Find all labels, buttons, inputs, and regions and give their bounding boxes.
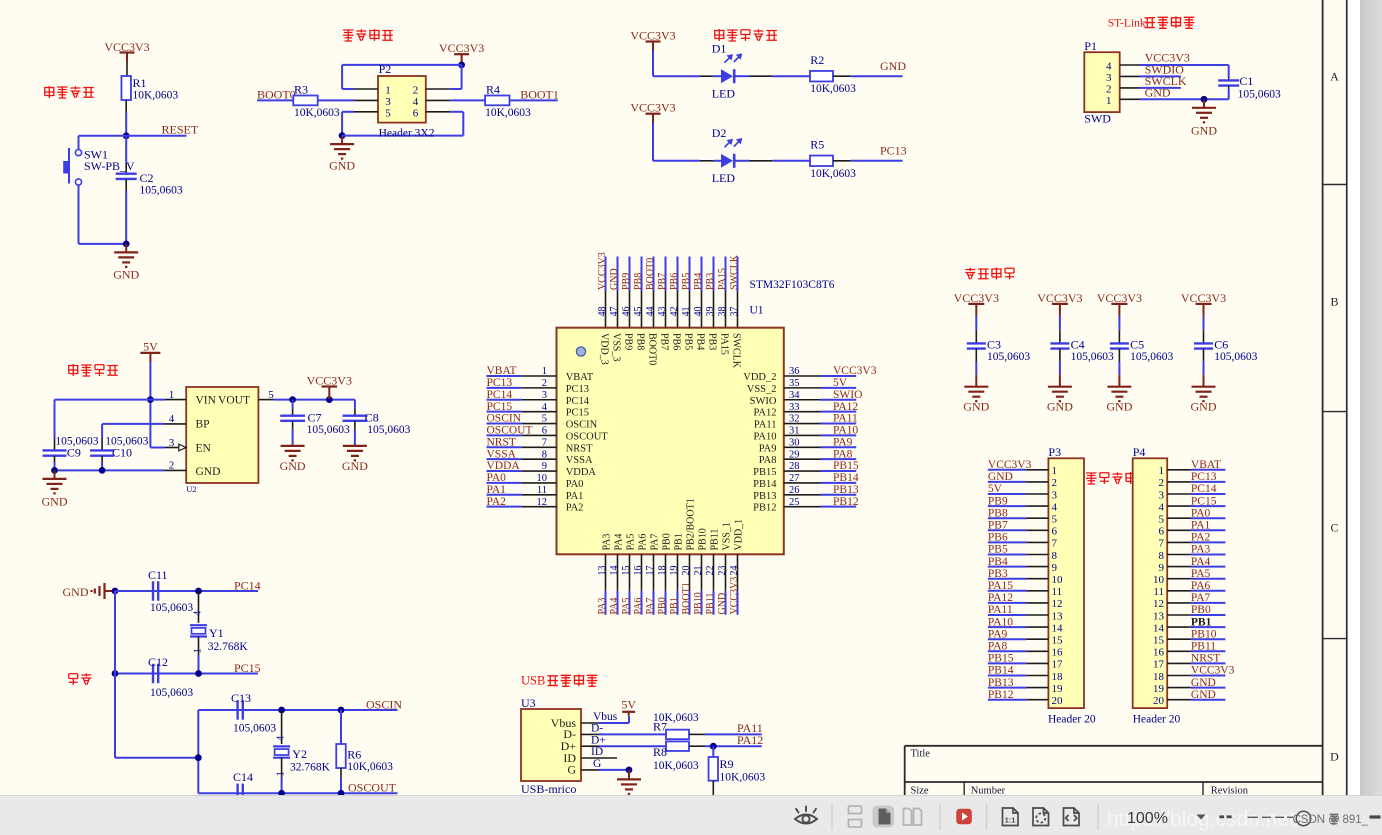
regulator U2: [186, 387, 258, 494]
svg-text:1: 1: [1106, 95, 1112, 107]
svg-text:PC15: PC15: [1191, 495, 1217, 507]
capacitor C13: [231, 691, 276, 735]
pin 14 P3 net PA10: [988, 616, 1063, 634]
svg-text:1: 1: [1052, 465, 1058, 477]
pin 9 P3 net PB4: [988, 556, 1058, 574]
svg-text:GND: GND: [1047, 400, 1073, 414]
svg-text:15: 15: [621, 566, 632, 576]
pin 3 P4 net PC14: [1159, 483, 1226, 501]
svg-text:VBAT: VBAT: [566, 372, 594, 383]
svg-text:VDD_2: VDD_2: [743, 372, 776, 383]
svg-text:OSCIN: OSCIN: [366, 698, 402, 712]
LED D2: [712, 126, 741, 185]
crystal Y2: [273, 710, 331, 793]
svg-text:44: 44: [645, 307, 656, 317]
pin 4 stub BP: [165, 423, 186, 425]
net label VCC3V3 wire to C1: [1140, 51, 1229, 66]
section title 电源指示灯: [714, 29, 777, 41]
pin 45 U1 top net PB8: [633, 257, 646, 351]
svg-text:3: 3: [542, 390, 547, 401]
power port 5V: [621, 698, 636, 716]
svg-text:21: 21: [693, 566, 704, 576]
svg-text:BOOT1: BOOT1: [681, 582, 692, 614]
svg-text:SWIO: SWIO: [833, 389, 862, 401]
pin 31 U1 right net PA10: [754, 425, 859, 443]
ground: [1191, 99, 1217, 137]
svg-text:17: 17: [1052, 659, 1064, 671]
svg-text:39: 39: [705, 307, 716, 317]
pin 6 U1 left net OSCOUT: [487, 425, 609, 443]
pin 18 P3 net PB14: [988, 665, 1063, 683]
svg-text:R9: R9: [720, 757, 734, 771]
svg-text:GND: GND: [609, 268, 620, 290]
svg-text:OSCIN: OSCIN: [487, 413, 522, 425]
ground: [963, 375, 989, 414]
svg-text:19: 19: [669, 566, 680, 576]
svg-text:PA3: PA3: [597, 598, 608, 615]
svg-text:29: 29: [789, 449, 800, 460]
svg-text:PA12: PA12: [737, 733, 763, 747]
svg-text:PB14: PB14: [988, 665, 1014, 677]
svg-text:SWIO: SWIO: [750, 396, 777, 407]
svg-text:Header 3X2: Header 3X2: [379, 128, 435, 140]
svg-text:PB3: PB3: [706, 333, 717, 350]
node Y1 bottom junction: [195, 670, 202, 677]
power port VCC3V3: [1181, 291, 1226, 316]
capacitor C11: [148, 568, 193, 614]
svg-text:GND: GND: [988, 471, 1013, 483]
pin 4 stub: [1120, 64, 1140, 66]
net label SWCLK: [1140, 74, 1187, 88]
svg-text:PA11: PA11: [833, 413, 858, 425]
pin 22 U1 bottom net PB11: [705, 529, 721, 615]
svg-text:C10: C10: [112, 446, 132, 460]
section title 电源模块: [68, 364, 118, 376]
svg-text:VCC3V3: VCC3V3: [1037, 291, 1082, 305]
svg-text:PC15: PC15: [566, 408, 589, 419]
svg-text:PC14: PC14: [566, 396, 590, 407]
svg-text:D1: D1: [712, 42, 727, 56]
section title 使能电路: [343, 29, 393, 41]
capacitor C3: [967, 316, 1031, 375]
section title 复位电路: [44, 86, 94, 98]
svg-text:24: 24: [729, 566, 740, 576]
svg-text:25: 25: [789, 497, 800, 508]
svg-text:30: 30: [789, 437, 800, 448]
svg-text:18: 18: [1153, 671, 1165, 683]
svg-text:1:1: 1:1: [1005, 816, 1016, 825]
svg-text:C12: C12: [148, 655, 168, 669]
svg-text:16: 16: [633, 566, 644, 576]
wire pin6 to GND: [342, 112, 463, 136]
svg-text:GND: GND: [717, 593, 728, 615]
svg-text:4: 4: [275, 735, 286, 741]
svg-text:40: 40: [693, 307, 704, 317]
pin 3 stub: [1120, 75, 1140, 77]
node R9 junction: [710, 743, 717, 750]
watermark CSDN text: [1293, 814, 1369, 826]
node VCC3V3 junction: [326, 396, 333, 403]
power port VCC3V3: [307, 374, 352, 400]
net label PA11: [689, 721, 763, 735]
svg-text:37: 37: [729, 307, 740, 317]
pin 25 U1 right net PB12: [753, 496, 859, 514]
pin 47 U1 top net GND: [609, 257, 622, 362]
wire 5V vertical to EN: [150, 362, 165, 448]
svg-text:PB4: PB4: [693, 273, 704, 290]
pin D+ wire: [581, 734, 666, 746]
svg-text:RESET: RESET: [162, 123, 199, 137]
svg-text:105,0603: 105,0603: [1238, 88, 1281, 100]
svg-text:PA15: PA15: [718, 333, 729, 355]
capacitor C2: [116, 136, 183, 244]
svg-text:3: 3: [1106, 72, 1112, 84]
svg-text:NRST: NRST: [487, 436, 516, 448]
pin 10 P3 net PB3: [988, 568, 1063, 586]
svg-text:C3: C3: [987, 338, 1001, 352]
svg-text:VCC3V3: VCC3V3: [1191, 665, 1235, 677]
svg-text:PA9: PA9: [988, 628, 1008, 640]
pin 13 P3 net PA11: [988, 604, 1063, 622]
pin 2 stub GND: [165, 469, 186, 471]
wire OSCIN line: [198, 709, 397, 711]
svg-text:4: 4: [1159, 501, 1165, 513]
svg-text:11: 11: [1052, 586, 1063, 598]
toolbar actual-size icon: [1003, 808, 1019, 826]
svg-text:R1: R1: [133, 76, 147, 90]
svg-text:PA7: PA7: [650, 534, 661, 551]
svg-text:PA9: PA9: [759, 443, 777, 454]
pin 15 U1 bottom net PA5: [621, 534, 637, 615]
svg-text:SWCLK: SWCLK: [729, 254, 740, 290]
svg-text:4: 4: [1106, 61, 1112, 73]
svg-text:GND: GND: [42, 495, 68, 509]
svg-text:27: 27: [789, 473, 800, 484]
svg-text:PB4: PB4: [988, 556, 1008, 568]
svg-text:5V: 5V: [988, 483, 1003, 495]
pin 19 U1 bottom net PB1: [669, 533, 685, 615]
svg-text:SW-PB_V: SW-PB_V: [84, 159, 135, 173]
pin 4 stub: [426, 99, 451, 101]
svg-text:PA2: PA2: [487, 496, 507, 508]
svg-text:2: 2: [542, 378, 547, 389]
svg-text:OSCOUT: OSCOUT: [487, 425, 533, 437]
resistor R4: [450, 83, 531, 119]
svg-text:OSCIN: OSCIN: [566, 420, 598, 431]
svg-text:PB1: PB1: [669, 597, 680, 614]
svg-text:C13: C13: [231, 691, 251, 705]
toolbar dropdown arrow: [1197, 815, 1206, 820]
wire SW1 to GND node: [79, 243, 127, 245]
pin 20 P4 net GND: [1153, 689, 1225, 707]
svg-text:28: 28: [789, 461, 800, 472]
pin 36 U1 right net VCC3V3: [743, 365, 876, 383]
title block: [905, 746, 1323, 797]
svg-text:GND: GND: [1106, 400, 1132, 414]
section title 滤波电容: [965, 268, 1014, 280]
pin 18 U1 bottom net PB0: [657, 533, 673, 615]
svg-text:34: 34: [789, 390, 800, 401]
svg-text:PA9: PA9: [833, 436, 853, 448]
pin 5 U1 left net OSCIN: [487, 413, 598, 431]
svg-text:C6: C6: [1214, 338, 1228, 352]
svg-text:6: 6: [1159, 526, 1165, 538]
svg-text:PB15: PB15: [833, 460, 859, 472]
svg-text:C: C: [1330, 521, 1338, 535]
svg-text:PB5: PB5: [682, 333, 693, 350]
pin 2 P3 net GND: [988, 471, 1057, 489]
pin 3 P3 net 5V: [988, 483, 1058, 501]
svg-text:C4: C4: [1071, 338, 1085, 352]
resistor R5: [810, 138, 856, 180]
pin 1 P4 net VBAT: [1159, 459, 1226, 477]
pin 16 P4 net PB11: [1153, 641, 1225, 659]
svg-text:C2: C2: [140, 171, 154, 185]
svg-text:GND: GND: [963, 400, 989, 414]
svg-text:P3: P3: [1048, 445, 1061, 459]
svg-text:10K,0603: 10K,0603: [485, 107, 531, 119]
svg-text:20: 20: [681, 566, 692, 576]
pin 5 stub VOUT: [258, 399, 274, 401]
pin 12 P3 net PA12: [988, 592, 1063, 610]
svg-text:7: 7: [1052, 538, 1058, 550]
svg-text:PB15: PB15: [988, 653, 1014, 665]
svg-text:USB: USB: [521, 674, 545, 688]
power port VCC3V3: [104, 40, 149, 62]
svg-text:PA4: PA4: [614, 534, 625, 551]
pin 11 P3 net PA15: [988, 580, 1062, 598]
svg-text:PB0: PB0: [662, 533, 673, 550]
power port VCC3V3: [630, 101, 675, 124]
pin 43 U1 top net PB7: [657, 257, 670, 351]
svg-text:PB7: PB7: [657, 273, 668, 290]
svg-text:2: 2: [1159, 477, 1165, 489]
svg-text:BP: BP: [196, 419, 210, 431]
node R6 bottom junction: [338, 790, 345, 797]
pin 4 P4 net PC15: [1159, 495, 1226, 513]
capacitor C6: [1194, 316, 1258, 375]
svg-text:OSCOUT: OSCOUT: [348, 781, 397, 795]
resistor R7: [653, 712, 699, 739]
svg-text:1: 1: [542, 366, 547, 377]
svg-text:46: 46: [621, 307, 632, 317]
svg-text:Title: Title: [911, 748, 931, 759]
section title 外接引脚: [1086, 472, 1136, 484]
svg-text:10: 10: [1153, 574, 1165, 586]
svg-text:5: 5: [268, 389, 274, 401]
svg-text:PB4: PB4: [694, 333, 705, 350]
svg-text:GND: GND: [113, 268, 139, 282]
node GND junction crystal: [112, 588, 119, 595]
pin 24 U1 bottom net VCC3V3: [729, 519, 745, 615]
svg-text:PB6: PB6: [669, 273, 680, 290]
white margin strip: [1348, 0, 1360, 795]
svg-text:VCC3V3: VCC3V3: [439, 41, 484, 55]
toolbar background: [0, 795, 1382, 835]
net label PC13: [833, 144, 907, 161]
svg-text:Number: Number: [971, 786, 1006, 797]
pin 3 stub: [354, 99, 378, 101]
net label SWDIO: [1140, 63, 1185, 77]
pin 1 stub VIN: [165, 399, 186, 401]
node PC15 left junction: [112, 670, 119, 677]
svg-text:SWCLK: SWCLK: [730, 333, 741, 369]
svg-text:B: B: [1330, 295, 1338, 309]
svg-text:105,0603: 105,0603: [307, 424, 350, 436]
toolbar eye icon: [795, 807, 817, 824]
svg-text:4: 4: [413, 96, 419, 108]
svg-text:PC13: PC13: [487, 377, 513, 389]
svg-text:PA1: PA1: [566, 491, 584, 502]
svg-text:PB11: PB11: [710, 529, 721, 551]
svg-text:VDDA: VDDA: [487, 460, 521, 472]
pin Vbus wire to 5V: [581, 711, 629, 723]
pin 5 stub: [354, 111, 378, 113]
capacitor C9: [43, 436, 99, 471]
wire GND rail: [55, 469, 166, 471]
node RESET junction: [123, 132, 130, 139]
svg-text:GND: GND: [1191, 689, 1216, 701]
wire VCC to D2: [653, 123, 721, 161]
wire VCC3V3 to R1: [126, 62, 128, 76]
svg-text:R4: R4: [486, 83, 500, 97]
svg-text:10K,0603: 10K,0603: [133, 90, 179, 102]
wire PC15 line: [115, 673, 258, 675]
wire left vertical: [114, 591, 116, 758]
section title 晶振: [69, 673, 92, 685]
pin 9 P4 net PA4: [1159, 556, 1226, 574]
pin 34 U1 right net SWIO: [750, 389, 863, 407]
node C7 junction: [289, 396, 296, 403]
pin 16 P3 net PA8: [988, 641, 1063, 659]
svg-text:VSSA: VSSA: [566, 455, 593, 466]
svg-text:1: 1: [169, 389, 175, 401]
svg-text:PB15: PB15: [753, 467, 776, 478]
pin 6 P3 net PB7: [988, 520, 1058, 538]
ground: [42, 470, 68, 508]
ground: [329, 136, 355, 173]
pin 15 P4 net PB10: [1153, 628, 1225, 646]
svg-text:D: D: [1330, 750, 1339, 764]
resistor R2: [810, 53, 856, 95]
pin 13 U1 bottom net PA3: [597, 534, 613, 615]
svg-text:PB5: PB5: [681, 273, 692, 290]
toolbar fit-width icon: [1064, 808, 1080, 826]
svg-text:32.768K: 32.768K: [290, 762, 331, 774]
svg-text:GND: GND: [880, 59, 906, 73]
pin 48 U1 top net VCC3V3: [597, 252, 610, 364]
svg-text:PB12: PB12: [753, 503, 776, 514]
svg-text:VSS_1: VSS_1: [722, 522, 733, 550]
svg-text:U1: U1: [750, 305, 764, 317]
svg-text:PB14: PB14: [833, 472, 859, 484]
svg-text:31: 31: [789, 426, 800, 437]
svg-text:NRST: NRST: [566, 443, 593, 454]
capacitor C12: [148, 655, 193, 699]
toolbar two-page icon: [904, 809, 922, 826]
svg-text:20: 20: [1153, 695, 1165, 707]
svg-text:45: 45: [633, 307, 644, 317]
svg-text:BOOT0: BOOT0: [645, 258, 656, 290]
toolbar zoom minus dashes: [1219, 815, 1231, 818]
svg-text:VCC3V3: VCC3V3: [1181, 291, 1226, 305]
pin 4 P3 net PB9: [988, 495, 1058, 513]
pin 21 U1 bottom net PB10: [693, 528, 709, 615]
net label BOOT0: [257, 88, 296, 102]
net label GND: [833, 59, 906, 76]
pin 9 U1 left net VDDA: [487, 460, 597, 478]
svg-text:32.768K: 32.768K: [208, 641, 249, 653]
svg-text:105,0603: 105,0603: [367, 424, 410, 436]
svg-text:43: 43: [657, 307, 668, 317]
wire D1 to R2: [736, 75, 811, 77]
pin 20 P3 net PB12: [988, 689, 1063, 707]
wire R3 to pin3: [318, 99, 354, 101]
svg-text:PB10: PB10: [1191, 628, 1217, 640]
svg-text:GND: GND: [329, 159, 355, 173]
svg-text:Y2: Y2: [292, 747, 307, 761]
svg-text:P1: P1: [1084, 39, 1097, 53]
node C10 GND junction: [99, 467, 106, 474]
svg-text:10K,0603: 10K,0603: [653, 712, 699, 724]
svg-text:5V: 5V: [621, 698, 636, 712]
svg-text:R2: R2: [810, 53, 824, 67]
svg-text:105,0603: 105,0603: [1130, 351, 1173, 363]
pin 1 P3 net VCC3V3: [988, 459, 1057, 477]
pin 33 U1 right net PA12: [754, 401, 859, 419]
svg-text:VDD_3: VDD_3: [598, 333, 609, 365]
svg-text:C5: C5: [1130, 338, 1144, 352]
svg-text:13: 13: [1153, 610, 1165, 622]
pin 12 U1 left net PA2: [487, 496, 584, 514]
svg-text:8: 8: [542, 449, 547, 460]
pin 29 U1 right net PA8: [759, 448, 856, 466]
svg-text:GND: GND: [280, 459, 306, 473]
svg-text:PB3: PB3: [705, 273, 716, 290]
svg-text:PB13: PB13: [833, 484, 859, 496]
pin 17 P4 net NRST: [1153, 653, 1225, 671]
svg-text:10K,0603: 10K,0603: [347, 761, 393, 773]
svg-text:PB9: PB9: [988, 495, 1008, 507]
svg-text:11: 11: [1153, 586, 1164, 598]
pin 6 P4 net PA1: [1159, 520, 1226, 538]
pin 5 P3 net PB8: [988, 507, 1058, 525]
pin 39 U1 top net PB3: [705, 257, 718, 351]
svg-text:GND: GND: [63, 585, 89, 599]
ground: [1047, 375, 1073, 414]
svg-text:17: 17: [1153, 659, 1165, 671]
svg-text:2: 2: [413, 85, 419, 97]
svg-text:PA0: PA0: [566, 479, 584, 490]
svg-text:16: 16: [1052, 647, 1064, 659]
svg-text:105,0603: 105,0603: [1071, 351, 1114, 363]
watermark CSDN circle: [1296, 811, 1310, 825]
svg-text:Size: Size: [911, 786, 929, 797]
svg-text:EN: EN: [196, 442, 212, 454]
svg-text:P2: P2: [379, 62, 392, 76]
svg-text:PB14: PB14: [753, 479, 777, 490]
svg-text:PA10: PA10: [833, 425, 858, 437]
svg-text:PA12: PA12: [833, 401, 858, 413]
ground: [1106, 375, 1132, 414]
svg-text:12: 12: [537, 497, 548, 508]
svg-text:GND: GND: [342, 459, 368, 473]
pin 20 U1 bottom net BOOT1: [681, 498, 697, 615]
svg-text:VSS_2: VSS_2: [747, 384, 777, 395]
svg-text:PC14: PC14: [234, 579, 261, 593]
pin 7 P3 net PB6: [988, 532, 1058, 550]
svg-text:PC13: PC13: [880, 144, 907, 158]
